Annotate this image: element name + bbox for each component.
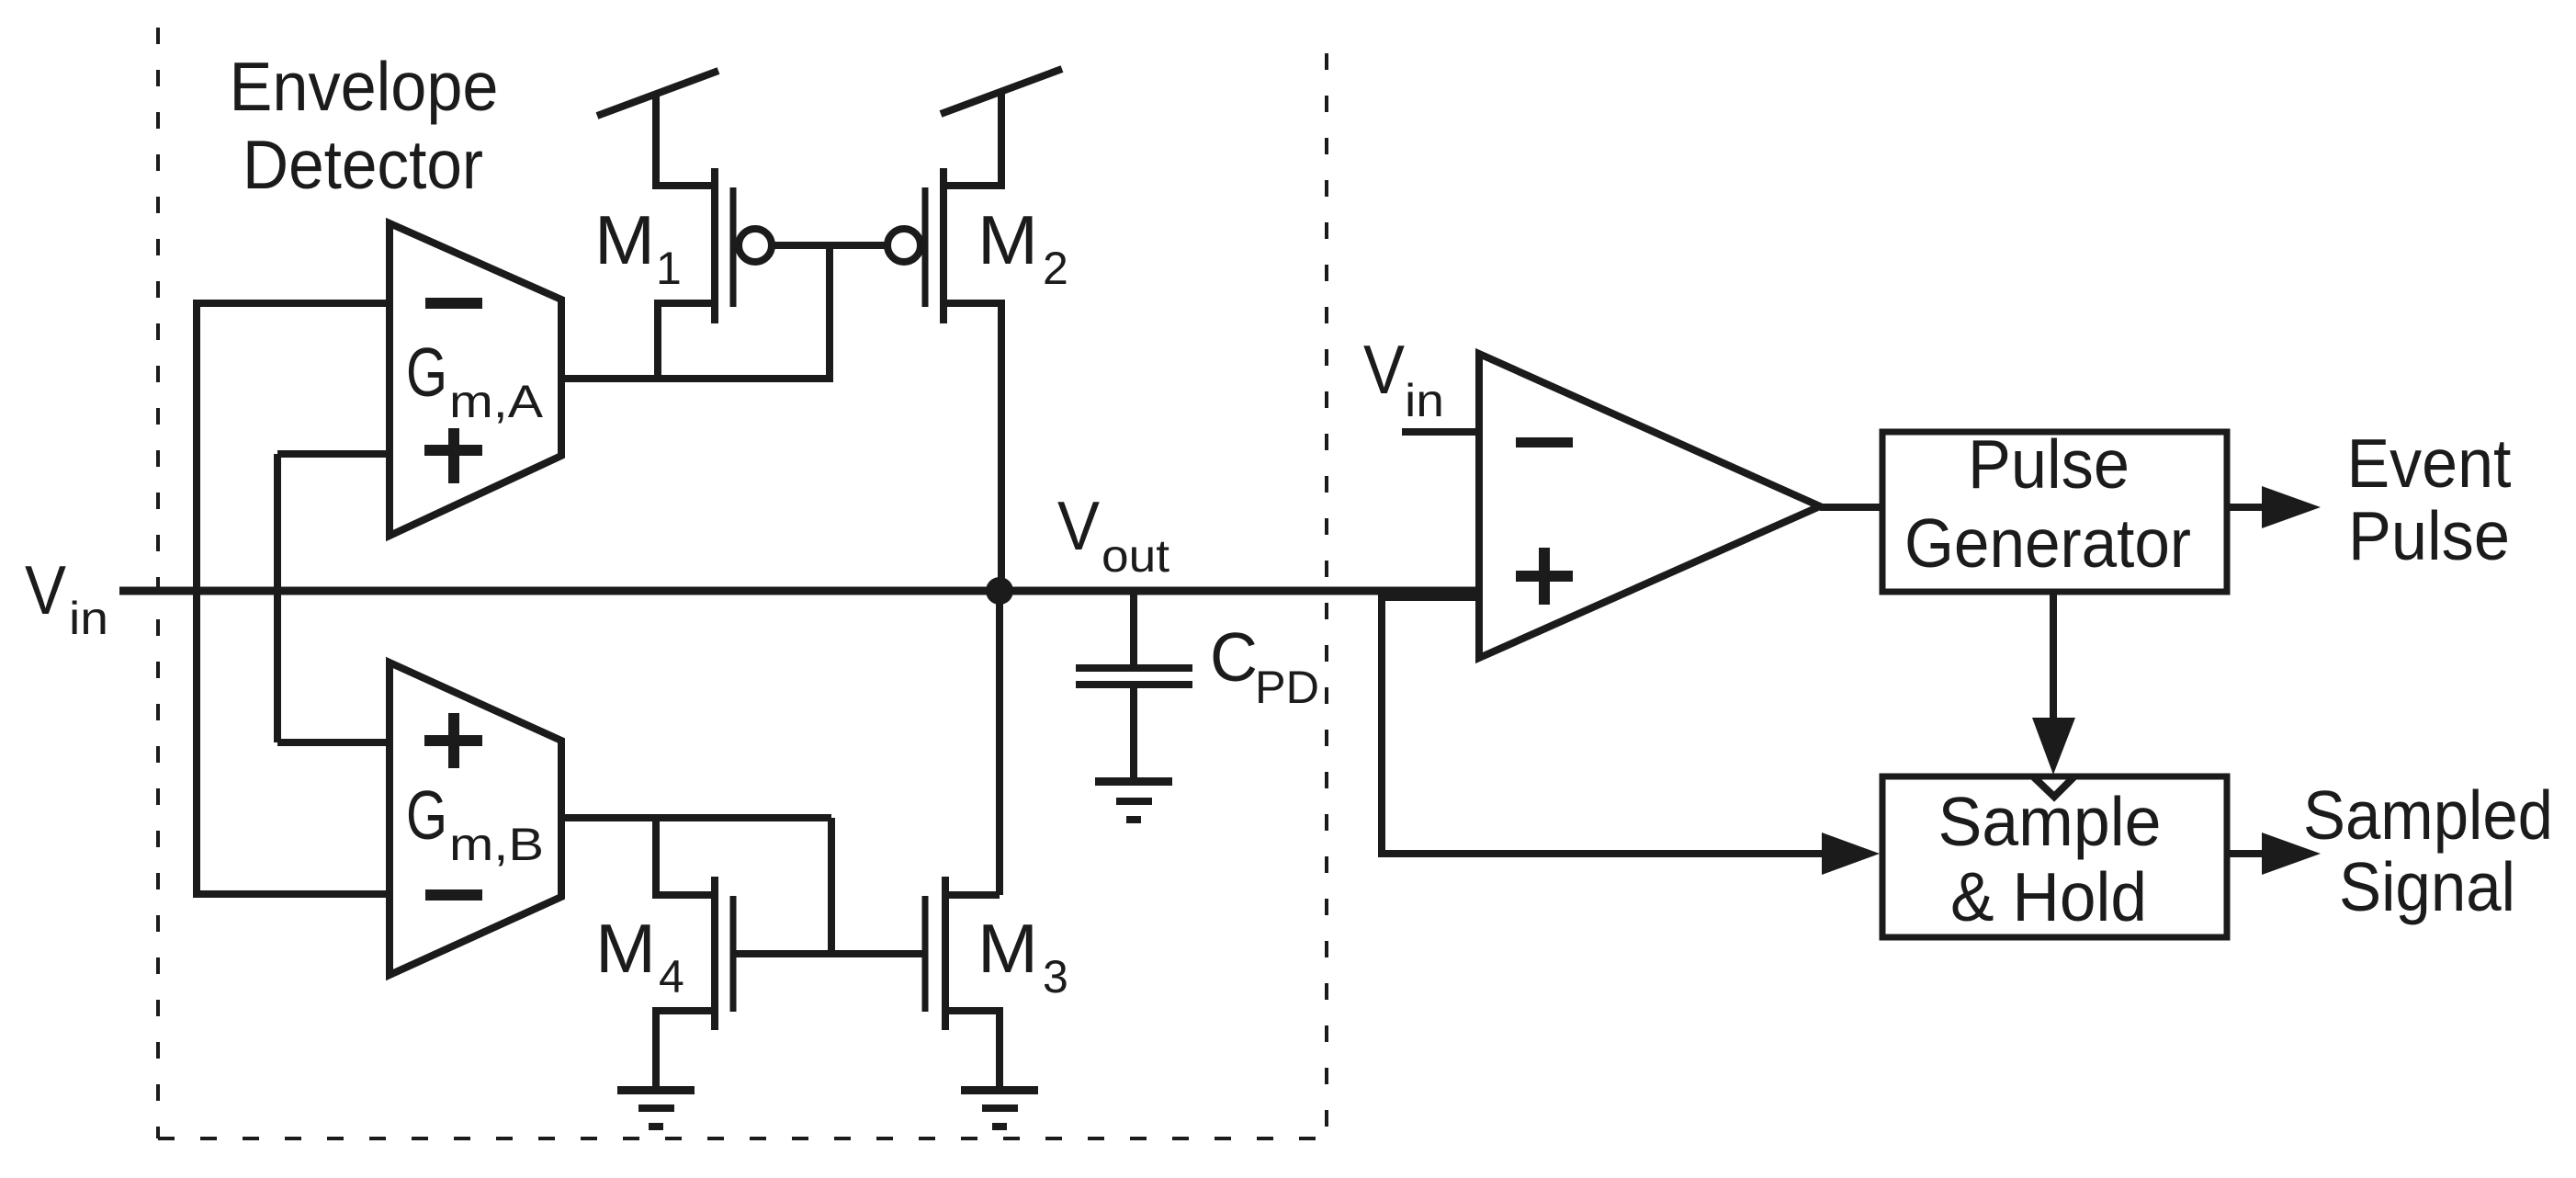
svg-text:4: 4 xyxy=(659,951,684,1002)
svg-text:V: V xyxy=(25,551,66,629)
wire Gm,A output xyxy=(561,375,833,382)
wire Vout down to M3 drain xyxy=(996,591,1003,895)
dashed box right edge xyxy=(1325,53,1328,1138)
wire M4 drain to output xyxy=(656,818,715,895)
wire vertical x=302 xyxy=(274,454,281,742)
op-amp Gm,A plus mark xyxy=(424,428,482,483)
wire M2 drain down to Vout xyxy=(943,303,1001,591)
op-amp Gm,B plus mark xyxy=(424,713,482,768)
svg-text:Signal: Signal xyxy=(2339,848,2515,925)
op-amp Gm,A body xyxy=(390,223,561,536)
svg-text:M: M xyxy=(977,910,1038,987)
transistor M4 channel xyxy=(711,877,718,1030)
wire Vin main horizontal xyxy=(119,587,1481,595)
wire M1 drain to output xyxy=(658,303,715,379)
transistor M1 gate bar xyxy=(730,187,737,307)
svg-text:out: out xyxy=(1102,530,1169,582)
arrowhead Event Pulse xyxy=(2262,486,2321,528)
transistor M1 bubble xyxy=(739,229,772,262)
transistor M1 source lead xyxy=(656,94,715,186)
transistor M1 channel xyxy=(711,168,718,323)
transistor M3 drain stub xyxy=(945,891,1000,899)
transistor M3 gate bar xyxy=(922,896,929,1012)
arrowhead PG to S&H xyxy=(2032,718,2075,775)
wire PG to S&H xyxy=(2050,592,2057,721)
transistor M2 bubble xyxy=(887,229,921,262)
wire Gm,A plus input xyxy=(277,450,390,458)
svg-text:M: M xyxy=(977,201,1038,278)
wire gate junction vertical x=903 xyxy=(826,245,833,379)
svg-text:1: 1 xyxy=(656,243,682,294)
wire Gm,B output xyxy=(561,814,831,821)
svg-text:G: G xyxy=(406,334,447,411)
op-amp Gm,B body xyxy=(390,663,561,975)
svg-text:Detector: Detector xyxy=(243,126,483,203)
ground under CPD xyxy=(1095,777,1172,823)
wire S&H feed xyxy=(1382,591,1825,854)
capacitor CPD bottom lead xyxy=(1130,688,1137,781)
chevron on S&H top edge xyxy=(2033,776,2074,797)
wire Gm,A minus input xyxy=(193,300,390,307)
VDD rail M2 xyxy=(941,69,1062,114)
transistor M2 gate bar xyxy=(922,187,929,307)
svg-text:m,A: m,A xyxy=(449,376,544,427)
wire Sampled Signal xyxy=(2227,850,2265,857)
svg-text:V: V xyxy=(1057,487,1100,564)
svg-text:Sampled: Sampled xyxy=(2303,776,2553,854)
dashed box bottom edge xyxy=(158,1137,1327,1140)
svg-text:Envelope: Envelope xyxy=(230,48,499,125)
op-amp Gm,B minus mark xyxy=(425,889,482,900)
wire Event Pulse xyxy=(2227,504,2265,511)
svg-text:Generator: Generator xyxy=(1904,504,2191,582)
svg-text:Event: Event xyxy=(2347,425,2512,502)
box Sample & Hold xyxy=(1882,776,2227,937)
svg-text:M: M xyxy=(595,910,656,987)
wire plus-input overlap stub xyxy=(1382,594,1481,601)
op-amp Gm,A minus mark xyxy=(425,298,482,309)
wire M4-M3 gate tie xyxy=(733,950,925,957)
wire Vin to comparator minus xyxy=(1402,428,1481,436)
wire comparator output xyxy=(1820,504,1885,511)
VDD rail M1 xyxy=(597,71,718,116)
wire Gm,B minus input xyxy=(193,890,390,898)
svg-text:PD: PD xyxy=(1255,662,1319,713)
svg-text:3: 3 xyxy=(1043,951,1068,1002)
transistor M4 source lead xyxy=(656,1011,715,1090)
svg-text:M: M xyxy=(594,201,655,278)
svg-text:in: in xyxy=(1405,375,1444,426)
svg-text:Pulse: Pulse xyxy=(1968,425,2130,503)
svg-text:2: 2 xyxy=(1043,243,1068,294)
transistor M3 channel xyxy=(942,877,949,1030)
transistor M2 channel xyxy=(940,168,947,323)
arrowhead into S&H xyxy=(1822,833,1880,875)
wire vertical x=214 to Gm inputs xyxy=(193,303,200,894)
svg-text:C: C xyxy=(1210,618,1258,696)
arrowhead Sampled Signal xyxy=(2262,833,2321,875)
transistor M3 source lead xyxy=(945,1011,1000,1090)
svg-text:V: V xyxy=(1363,331,1405,408)
comparator minus mark xyxy=(1516,437,1573,447)
box Pulse Generator xyxy=(1882,432,2227,592)
capacitor CPD plates xyxy=(1076,664,1192,672)
svg-text:m,B: m,B xyxy=(449,819,544,870)
comparator U1 body xyxy=(1479,354,1820,658)
svg-text:Pulse: Pulse xyxy=(2348,497,2510,574)
node Vout junction dot xyxy=(986,577,1013,605)
comparator plus mark xyxy=(1516,548,1573,605)
svg-text:& Hold: & Hold xyxy=(1950,858,2147,935)
ground under M4 xyxy=(617,1086,695,1130)
wire Gm,B plus input xyxy=(277,739,390,746)
svg-text:in: in xyxy=(69,593,108,644)
dashed box left edge xyxy=(156,28,160,1138)
transistor M4 gate bar xyxy=(730,896,737,1012)
svg-text:Sample: Sample xyxy=(1938,783,2162,860)
ground under M3 xyxy=(961,1086,1038,1130)
capacitor CPD top lead xyxy=(1130,591,1137,664)
wire M1-M2 gate tie xyxy=(772,242,887,249)
transistor M2 source lead xyxy=(943,91,1001,186)
wire gate junction vertical x=905 xyxy=(828,818,835,954)
svg-text:G: G xyxy=(406,776,447,854)
